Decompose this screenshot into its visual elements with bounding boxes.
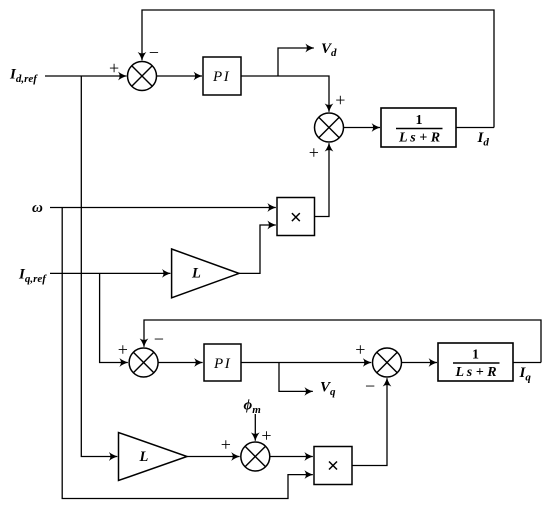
svg-text:L: L (139, 449, 149, 465)
label Vd (321, 41, 337, 59)
wire S4 output to multiplier M2 upper input (270, 456, 313, 458)
summing junction S1 (128, 62, 157, 91)
transfer function block 1/(Ls+R) q-axis (438, 343, 513, 381)
wire Iq,ref to gain L1 (50, 272, 170, 274)
plus sign at S2 bottom input (309, 143, 319, 163)
wire M1 output up to S2 bottom (315, 143, 330, 216)
wire Id,ref input to summing junction S1 (45, 75, 127, 77)
wire Iq,ref branch down to summing junction S3 (100, 273, 128, 362)
wire omega to multiplier M1 (50, 207, 276, 209)
summing junction S5 (373, 348, 402, 377)
PI block (d-axis) (203, 57, 241, 95)
svg-text:−: − (149, 42, 159, 62)
svg-text:PI: PI (213, 356, 231, 372)
minus sign at S1 top input (149, 42, 159, 62)
plus sign at S2 top input (335, 90, 345, 110)
plus sign at S4 left input (221, 435, 231, 455)
wire G2 output to feedback corner (513, 362, 541, 364)
wire M2 output up to S5 bottom (352, 378, 387, 465)
summing junction S2 (315, 113, 344, 142)
svg-text:+: + (355, 339, 365, 359)
wire S5 to transfer block G2 (402, 362, 438, 364)
svg-text:1: 1 (472, 348, 479, 363)
wire Vq branch (279, 363, 313, 392)
label Vq (320, 380, 336, 399)
wire phi_m to S4 top (254, 414, 256, 441)
multiplier block M1 (277, 198, 315, 236)
svg-text:ω: ω (32, 200, 43, 216)
svg-text:L s + R: L s + R (398, 131, 440, 146)
wire L2 output to summing junction S4 (187, 456, 240, 458)
plus sign at S1 left input (109, 58, 119, 78)
gain triangle L1 (172, 249, 239, 298)
svg-text:L s + R: L s + R (454, 365, 496, 380)
multiplier block M2 (314, 447, 352, 485)
wire q-axis feedback loop (144, 320, 541, 363)
wire PI1 output to corner above S2 (241, 76, 329, 112)
wire S1 to PI block 1 (157, 75, 203, 77)
svg-text:+: + (109, 58, 119, 78)
summing junction S4 (241, 442, 270, 471)
plus sign at S5 left input (355, 339, 365, 359)
wire Vd branch (278, 48, 314, 76)
gain triangle L2 (119, 433, 188, 481)
svg-text:+: + (261, 426, 271, 446)
label Iq (519, 365, 532, 384)
svg-text:−: − (154, 329, 164, 349)
minus sign at S5 bottom input (365, 376, 375, 396)
wire G1 output to feedback corner (456, 127, 494, 129)
svg-text:−: − (365, 376, 375, 396)
summing junction S3 (129, 348, 158, 377)
label omega (32, 200, 43, 216)
wire Id,ref branch down to gain L2 (81, 76, 117, 457)
label Iq,ref (18, 267, 47, 286)
transfer function block 1/(Ls+R) d-axis (381, 108, 456, 147)
wire S2 to transfer block G1 (344, 127, 381, 129)
svg-text:+: + (335, 90, 345, 110)
svg-text:1: 1 (416, 113, 423, 128)
svg-text:L: L (191, 266, 201, 282)
wire PI2 output to summing junction S5 (241, 362, 371, 364)
plus sign at S3 left input (118, 339, 128, 359)
wire omega branch down along bottom to multiplier M2 lower input (62, 208, 313, 499)
svg-text:PI: PI (212, 69, 230, 85)
wire d-axis feedback loop (142, 10, 494, 128)
plus sign at S4 top input (261, 426, 271, 446)
wire S3 to PI block 2 (158, 362, 203, 364)
svg-text:+: + (221, 435, 231, 455)
label Id (477, 130, 490, 149)
svg-text:+: + (309, 143, 319, 163)
svg-text:+: + (118, 339, 128, 359)
label Id,ref (9, 67, 38, 86)
minus sign at S3 top input (154, 329, 164, 349)
wire L1 output to M1 lower input (239, 225, 276, 273)
PI block (q-axis) (204, 344, 241, 381)
label phi_m (244, 398, 262, 417)
